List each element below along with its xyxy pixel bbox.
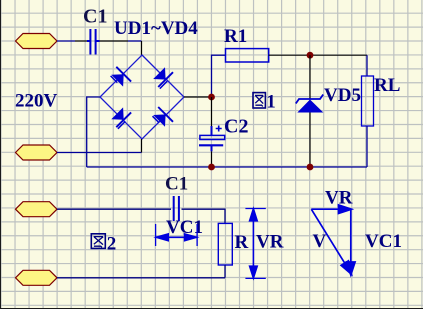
wire RL to bottom rail xyxy=(366,126,368,167)
diode VD4 (bottom-right) xyxy=(153,107,174,127)
diode VD2 (top-right) xyxy=(153,67,173,88)
phasor VC1 arrow xyxy=(347,209,356,275)
port P1 (220V top terminal) xyxy=(16,34,58,49)
wire bottom rail xyxy=(87,166,367,168)
svg-text:2: 2 xyxy=(107,234,117,255)
svg-text:220V: 220V xyxy=(15,91,58,112)
svg-text:C1: C1 xyxy=(165,174,188,195)
zener diode VD5 xyxy=(296,95,324,113)
svg-text:UD1~VD4: UD1~VD4 xyxy=(114,18,198,39)
label figure1 (chinese tu) xyxy=(253,93,265,108)
wire bridge bottom corner down xyxy=(141,139,143,153)
VC1 measure ticks xyxy=(156,224,198,246)
svg-text:VR: VR xyxy=(256,232,284,253)
svg-text:C1: C1 xyxy=(83,6,107,28)
resistor R figure 2 xyxy=(218,223,232,265)
wire C1 fig2 to R xyxy=(182,209,226,223)
port P3 (fig2 top terminal) xyxy=(16,202,58,217)
wire C2 to bottom rail xyxy=(211,151,213,167)
wire VD5 to bottom rail xyxy=(309,113,311,168)
junction node C xyxy=(307,164,314,171)
junction node B xyxy=(307,52,314,59)
junction node A xyxy=(208,94,215,101)
svg-text:R1: R1 xyxy=(224,26,247,47)
svg-text:1: 1 xyxy=(266,92,276,113)
svg-text:RL: RL xyxy=(374,75,400,96)
diode VD1 (top-left) xyxy=(111,67,132,87)
wire P3 to C1 fig2 xyxy=(57,208,171,210)
wire bridge left corner loop to bottom rail xyxy=(87,97,100,167)
capacitor C2 xyxy=(199,126,225,151)
wire C1 to bridge top xyxy=(100,40,129,42)
svg-text:VD5: VD5 xyxy=(324,85,361,106)
port P4 (fig2 bottom terminal) xyxy=(16,270,58,285)
wire node A down to C2 xyxy=(211,97,213,126)
label + of C2 xyxy=(216,126,222,132)
svg-text:C2: C2 xyxy=(224,116,248,138)
diode VD3 (bottom-left) xyxy=(111,107,131,128)
bridge diamond xyxy=(100,55,184,139)
svg-text:R: R xyxy=(235,232,249,253)
wire node B down to VD5 xyxy=(309,55,311,99)
phasor VR arrow xyxy=(311,205,351,214)
resistor R1 xyxy=(226,49,269,62)
wire R to bottom xyxy=(224,265,226,278)
resistor RL xyxy=(362,76,374,126)
wire P4 to R bottom xyxy=(57,277,225,279)
wire R1 to RL corner xyxy=(269,54,367,56)
port P2 (220V bottom terminal) xyxy=(16,145,58,160)
junction node D xyxy=(208,164,215,171)
wire bridge right corner to node xyxy=(184,96,212,98)
svg-text:V: V xyxy=(313,231,327,252)
wire P2 to bridge bottom xyxy=(57,152,142,154)
capacitor C1 xyxy=(87,29,100,55)
label 图2 (chinese tu) xyxy=(91,234,105,249)
svg-text:VC1: VC1 xyxy=(365,231,402,252)
VC1 double arrow xyxy=(156,234,196,241)
phasor V arrow xyxy=(311,209,351,274)
VR measure ticks xyxy=(245,209,265,279)
wire top to RL xyxy=(366,55,368,76)
VR double arrow xyxy=(250,209,258,278)
wire node up to R1 xyxy=(212,55,226,97)
capacitor C1 figure 2 xyxy=(174,196,179,221)
wire P1 to C1 xyxy=(57,40,75,42)
